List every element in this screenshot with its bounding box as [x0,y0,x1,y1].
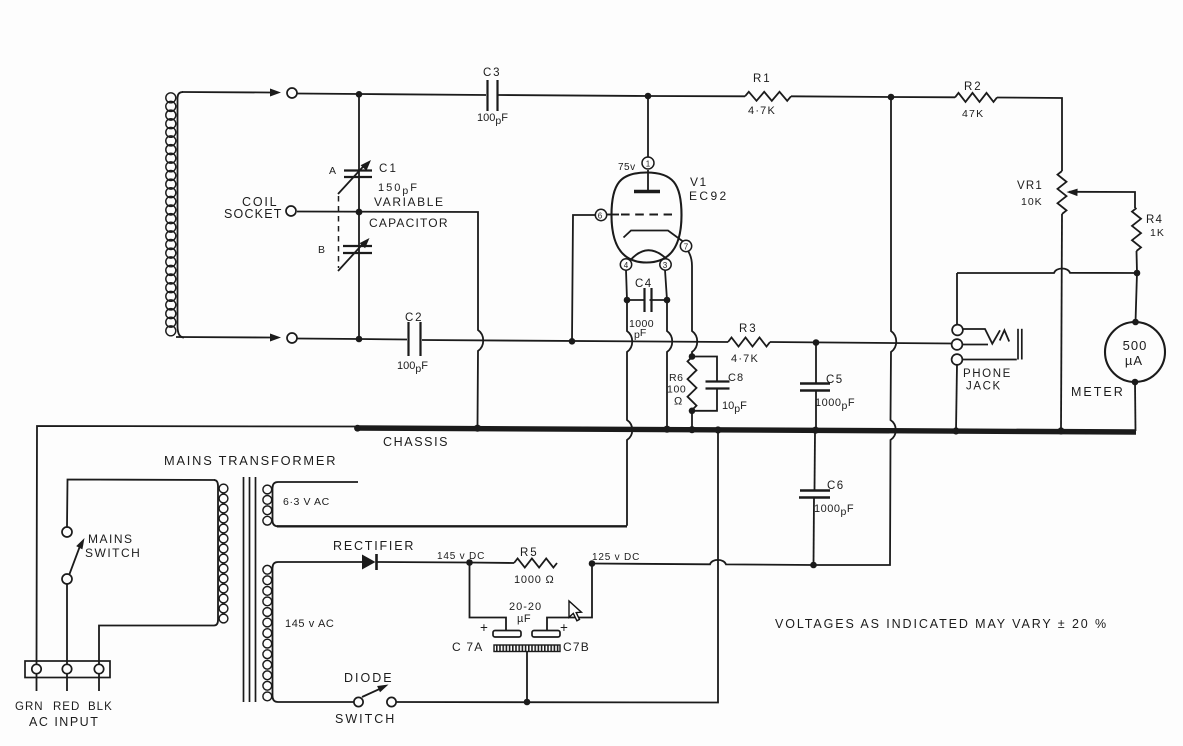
svg-text:µF: µF [517,613,531,625]
AC input terminal strip [25,661,110,678]
node meter plus [1132,319,1139,326]
node R6 bottom [689,408,696,415]
node chassis left end [354,425,361,432]
rectifier diode [362,555,376,570]
svg-text:75v: 75v [618,162,636,173]
svg-text:R3: R3 [739,323,758,335]
145VAC winding bottom wire to diode switch [278,701,354,703]
node grid junction (pin6 drop) [569,338,576,345]
svg-text:145 v DC: 145 v DC [437,551,485,562]
terminal stubs below strip [36,674,38,691]
wire pin4 heater drop, hops grid line and chassis, to 6.3V winding [626,270,632,526]
svg-text:6: 6 [598,212,603,221]
node B+ top junction [888,94,895,101]
phone jack tip contact [952,325,963,336]
tube grid dashed [607,214,619,216]
wire coil bottom to socket [176,336,270,339]
capacitor C6 below chassis [814,432,817,490]
wire pin3 to chassis [665,270,672,429]
node C1 rotor junction [356,209,363,216]
svg-text:Ω: Ω [674,396,682,408]
svg-text:PHONE: PHONE [963,368,1012,380]
diode switch left contact [354,697,363,706]
arrow into bottom socket pin [270,334,281,342]
svg-text:C4: C4 [635,278,653,290]
svg-text:3: 3 [663,261,668,270]
node bottom-left junction [356,336,363,343]
tube pin 3 [660,259,671,270]
svg-text:RED: RED [53,701,80,713]
mains switch lower contact [62,574,72,584]
svg-text:METER: METER [1071,385,1125,399]
svg-text:pF: pF [634,327,646,341]
terminal RED [62,664,71,673]
resistor R5 [514,559,557,568]
wire R2 to VR1 top [997,98,1062,172]
wire to R2 [891,96,955,98]
wire primary top to mains switch [67,480,215,527]
svg-text:4·7K: 4·7K [748,105,776,117]
diode switch arm arrow [362,687,384,697]
tube anode plate [647,170,649,191]
node cathode to R6/C8 [689,353,696,360]
svg-text:SWITCH: SWITCH [335,712,396,726]
transformer 6.3V winding rail [273,482,359,526]
svg-text:MAINS TRANSFORMER: MAINS TRANSFORMER [164,453,337,468]
coil (plug-in coil) rail [178,92,185,338]
svg-text:C 7A: C 7A [452,640,483,654]
tube cathode [624,231,684,242]
svg-text:CHASSIS: CHASSIS [383,435,449,449]
capacitor C7B positive lead [547,564,592,631]
node C6 bottom on 125V rail [810,562,817,569]
resistor R1 [745,92,791,101]
svg-text:1K: 1K [1150,227,1165,239]
jack tip spring [963,329,1000,344]
node C4 right [664,297,671,304]
transformer 6.3V loops [263,485,272,525]
svg-text:A: A [329,165,336,177]
svg-text:145 v AC: 145 v AC [285,618,334,630]
wire R3 to phone jack middle [770,342,952,344]
svg-text:AC INPUT: AC INPUT [29,715,99,729]
svg-text:125 v DC: 125 v DC [592,552,640,563]
svg-text:C6: C6 [827,480,845,492]
coil loops [166,93,176,336]
node anode junction [645,93,652,100]
svg-text:VOLTAGES AS INDICATED MAY VARY: VOLTAGES AS INDICATED MAY VARY ± 20 % [775,617,1108,631]
wire primary bottom to AC terminal BLK [99,626,214,665]
node meter top junction [1134,270,1141,277]
wire grid pin6 [572,215,596,341]
wire between C1 sections [358,212,360,339]
B+ vertical line from R1/R2 node, hops grid line and chassis, to 125VDC rail [813,97,896,565]
mains switch arm arrow [70,546,81,574]
wire GRN ground to chassis [37,426,357,664]
meter body 500uA [1105,322,1165,382]
wire pin7 cathode down, hops grid line, to R6 C8 [688,251,697,356]
svg-text:+: + [480,620,488,635]
coil socket bottom pin [287,333,297,343]
svg-text:10K: 10K [1021,196,1043,208]
terminal BLK [94,664,103,673]
svg-text:B: B [318,244,325,256]
VR1 potentiometer [1058,171,1067,214]
wire coil top to socket [182,91,270,94]
node meter minus [1132,379,1139,386]
wire R5 to rectifier node [469,562,514,565]
VR1 wiper arrow to R4 [1067,189,1078,197]
svg-text:C8: C8 [728,372,744,384]
svg-text:EC92: EC92 [689,189,729,203]
CHASSIS bus thick line [356,428,1136,432]
wire anode node to R1 [648,95,745,97]
C7A top plate [493,631,521,638]
svg-text:R1: R1 [753,73,772,85]
meter feed line y273, hops VR1 ground line [957,268,1137,273]
svg-text:4: 4 [624,261,629,270]
wire pin1 up to top rail [647,96,649,158]
jack break arm [963,344,989,346]
svg-text:1: 1 [646,160,651,169]
mains switch upper contact [62,527,72,537]
transformer core [243,477,245,702]
wire R6 to chassis [691,411,693,430]
node chassis at coil ground [474,425,481,432]
diode switch right contact [387,697,396,706]
wire rectifier output [378,561,470,564]
svg-text:SWITCH: SWITCH [85,546,141,560]
coil socket middle pin [286,206,296,216]
coil socket top pin [287,88,297,98]
wire VR1 bottom to chassis [1061,214,1062,431]
wire R1 to B+ node [791,95,891,98]
svg-text:C3: C3 [483,67,501,79]
resistor R6 [688,357,697,410]
node chassis at pin3 [663,426,670,433]
node C4 left [624,297,631,304]
svg-text:4·7K: 4·7K [731,353,759,365]
node 145VDC [466,559,473,566]
node chassis at jack [952,427,959,434]
node chassis at VR1 [1057,427,1064,434]
svg-text:C7B: C7B [563,640,590,654]
capacitor C2 [407,322,409,356]
mouse cursor [569,601,581,621]
capacitor C7A positive lead [470,563,507,631]
wire C2 to grid line [422,340,728,342]
wire switch to AC terminal RED [66,584,68,664]
svg-text:DIODE: DIODE [344,671,394,685]
tube pin 1 [642,157,654,169]
capacitor C3 [486,80,488,111]
svg-text:µA: µA [1125,353,1143,368]
ground return line bottom [397,432,719,703]
node chassis at C5/C6 [812,427,819,434]
svg-text:VARIABLE: VARIABLE [374,195,445,209]
wire bottom rail to C2 [297,339,407,340]
wire C3 to anode node [499,95,649,96]
node C5 top [813,339,820,346]
svg-text:VR1: VR1 [1017,180,1043,192]
tube pin 7 [680,240,691,251]
svg-text:R4: R4 [1146,214,1163,226]
svg-text:JACK: JACK [966,381,1002,393]
tube pin 6 [595,209,606,220]
heater line 6.3V winding bottom to pin4 drop [277,525,627,527]
tube pin 4 [620,259,631,270]
transformer 145V loops [263,565,272,700]
wire R4 to meter node [1136,251,1139,273]
node 125VDC at C7B [589,560,596,567]
svg-text:GRN: GRN [15,701,44,713]
node chassis at R6 [688,426,695,433]
svg-text:R2: R2 [964,81,983,93]
svg-text:20-20: 20-20 [509,601,542,613]
node chassis at ground return [714,426,721,433]
transformer primary winding rail [214,480,218,626]
svg-text:BLK: BLK [88,701,113,713]
jack sleeve arm [963,359,1017,361]
svg-text:CAPACITOR: CAPACITOR [369,216,449,230]
svg-text:6·3 V AC: 6·3 V AC [283,496,330,508]
svg-text:C5: C5 [826,374,844,386]
jack plug body [1017,329,1019,360]
resistor R2 [955,93,997,102]
variable capacitor C1 section A [358,94,360,212]
capacitor C8 branch [692,357,717,382]
wire jack sleeve to chassis [956,365,957,431]
C7B top plate [532,631,560,638]
svg-text:V1: V1 [690,175,708,189]
tube V1 EC92 envelope [612,173,682,263]
svg-text:+: + [560,620,568,635]
svg-text:500: 500 [1123,338,1148,353]
wire C7 common to ground line [526,652,528,703]
svg-text:1000 Ω: 1000 Ω [514,574,555,586]
terminal GRN [32,664,41,673]
node top-left junction [356,91,363,98]
transformer 145V winding rail [273,562,363,702]
svg-text:R6: R6 [669,372,684,384]
wire meter node down to meter [1136,273,1138,322]
capacitor C5 [815,343,817,384]
transformer primary loops [219,484,228,623]
capacitor C4 [627,299,645,301]
phone jack break contact [952,339,963,350]
C7 common negative plate hatched [494,645,560,652]
node ground line at C7 [524,699,531,706]
wire socket middle to ground, hops C2 line and joins chassis [297,212,483,427]
svg-text:R5: R5 [520,547,539,559]
125VDC rail, hops ground return riser [592,560,813,565]
resistor R3 [728,338,770,347]
arrow into top socket pin [270,89,281,97]
svg-text:100: 100 [667,384,686,396]
variable capacitor C1 section B [343,245,372,247]
svg-text:RECTIFIER: RECTIFIER [333,539,415,553]
svg-text:C1: C1 [379,163,398,175]
svg-text:SOCKET: SOCKET [224,207,283,221]
svg-text:47K: 47K [962,108,984,120]
wire down to phone jack tip [956,273,958,325]
resistor R4 [1132,208,1141,251]
phone jack sleeve contact [952,354,963,365]
wire meter to chassis end [1134,382,1137,431]
gang dashed link [338,196,340,268]
svg-text:C2: C2 [405,312,423,324]
svg-text:MAINS: MAINS [88,532,134,546]
wire top rail [297,94,486,96]
svg-text:7: 7 [684,243,689,252]
tube heater arc [631,250,667,260]
